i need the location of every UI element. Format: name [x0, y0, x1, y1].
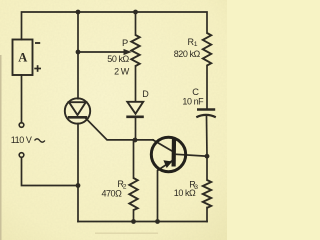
- junction supply return: [76, 183, 81, 188]
- sine symbol: [35, 139, 45, 142]
- junction top P branch: [133, 10, 138, 15]
- wire lower terminal to return: [22, 157, 79, 185]
- wire P bottom to diode: [135, 66, 137, 102]
- smudge artifact: [95, 233, 158, 234]
- capacitor C: [196, 110, 216, 118]
- wire wiper to SCR branch: [78, 51, 124, 53]
- diode D: [126, 102, 144, 117]
- wire gate node to R2: [133, 140, 135, 178]
- wire ammeter to terminal: [21, 75, 23, 123]
- resistor R2 zigzag: [129, 178, 137, 210]
- minus polarity mark: [35, 42, 40, 44]
- svg-text:C: C: [192, 87, 199, 97]
- plus polarity mark: [34, 65, 41, 72]
- junction R2 bottom: [131, 219, 136, 224]
- svg-text:50 kΩ: 50 kΩ: [107, 54, 129, 64]
- junction top SCR branch: [76, 10, 81, 15]
- wire R1 to capacitor: [206, 66, 208, 109]
- wire transistor emitter: [158, 161, 173, 222]
- terminal upper: [19, 123, 24, 128]
- potentiometer wiper arrow: [124, 49, 132, 55]
- ammeter A1 box: [13, 40, 33, 76]
- junction wiper: [76, 50, 81, 55]
- wire R3 to bottom rail: [206, 208, 208, 222]
- junction gate node: [133, 138, 138, 143]
- base bar: [172, 138, 177, 167]
- transistor Q1: [151, 137, 185, 171]
- wire SCR gate: [86, 119, 153, 140]
- resistor R3 zigzag: [203, 180, 211, 208]
- wire R2 to bottom rail: [133, 210, 135, 222]
- svg-text:470Ω: 470Ω: [101, 188, 122, 198]
- svg-text:2 W: 2 W: [114, 66, 130, 76]
- svg-text:10 nF: 10 nF: [182, 96, 204, 106]
- wire P branch top: [135, 12, 137, 35]
- junction emitter bottom: [155, 219, 160, 224]
- wire transistor collector: [153, 140, 173, 151]
- potentiometer P zigzag: [131, 35, 139, 66]
- svg-text:P: P: [122, 38, 128, 48]
- svg-text:A: A: [18, 51, 27, 65]
- wire top rail: [22, 12, 208, 40]
- svg-text:110 V: 110 V: [11, 135, 32, 145]
- svg-text:10 kΩ: 10 kΩ: [174, 188, 196, 198]
- emitter arrowhead: [163, 160, 172, 168]
- resistor R1 zigzag: [203, 33, 211, 66]
- wire bottom rail: [78, 221, 207, 223]
- wire diode to gate node: [135, 118, 137, 140]
- svg-text:D: D: [142, 89, 149, 99]
- junction base rail: [205, 154, 210, 159]
- wire transistor base to rail: [177, 154, 208, 156]
- thyristor SCR: [65, 98, 90, 123]
- wire base node to R3: [206, 156, 208, 180]
- svg-text:820 kΩ: 820 kΩ: [174, 49, 201, 59]
- left scan edge: [0, 55, 2, 240]
- wire SCR branch top: [77, 12, 79, 99]
- terminal lower: [19, 153, 24, 158]
- wire SCR cathode down: [77, 124, 79, 222]
- wire capacitor to base node: [206, 117, 209, 157]
